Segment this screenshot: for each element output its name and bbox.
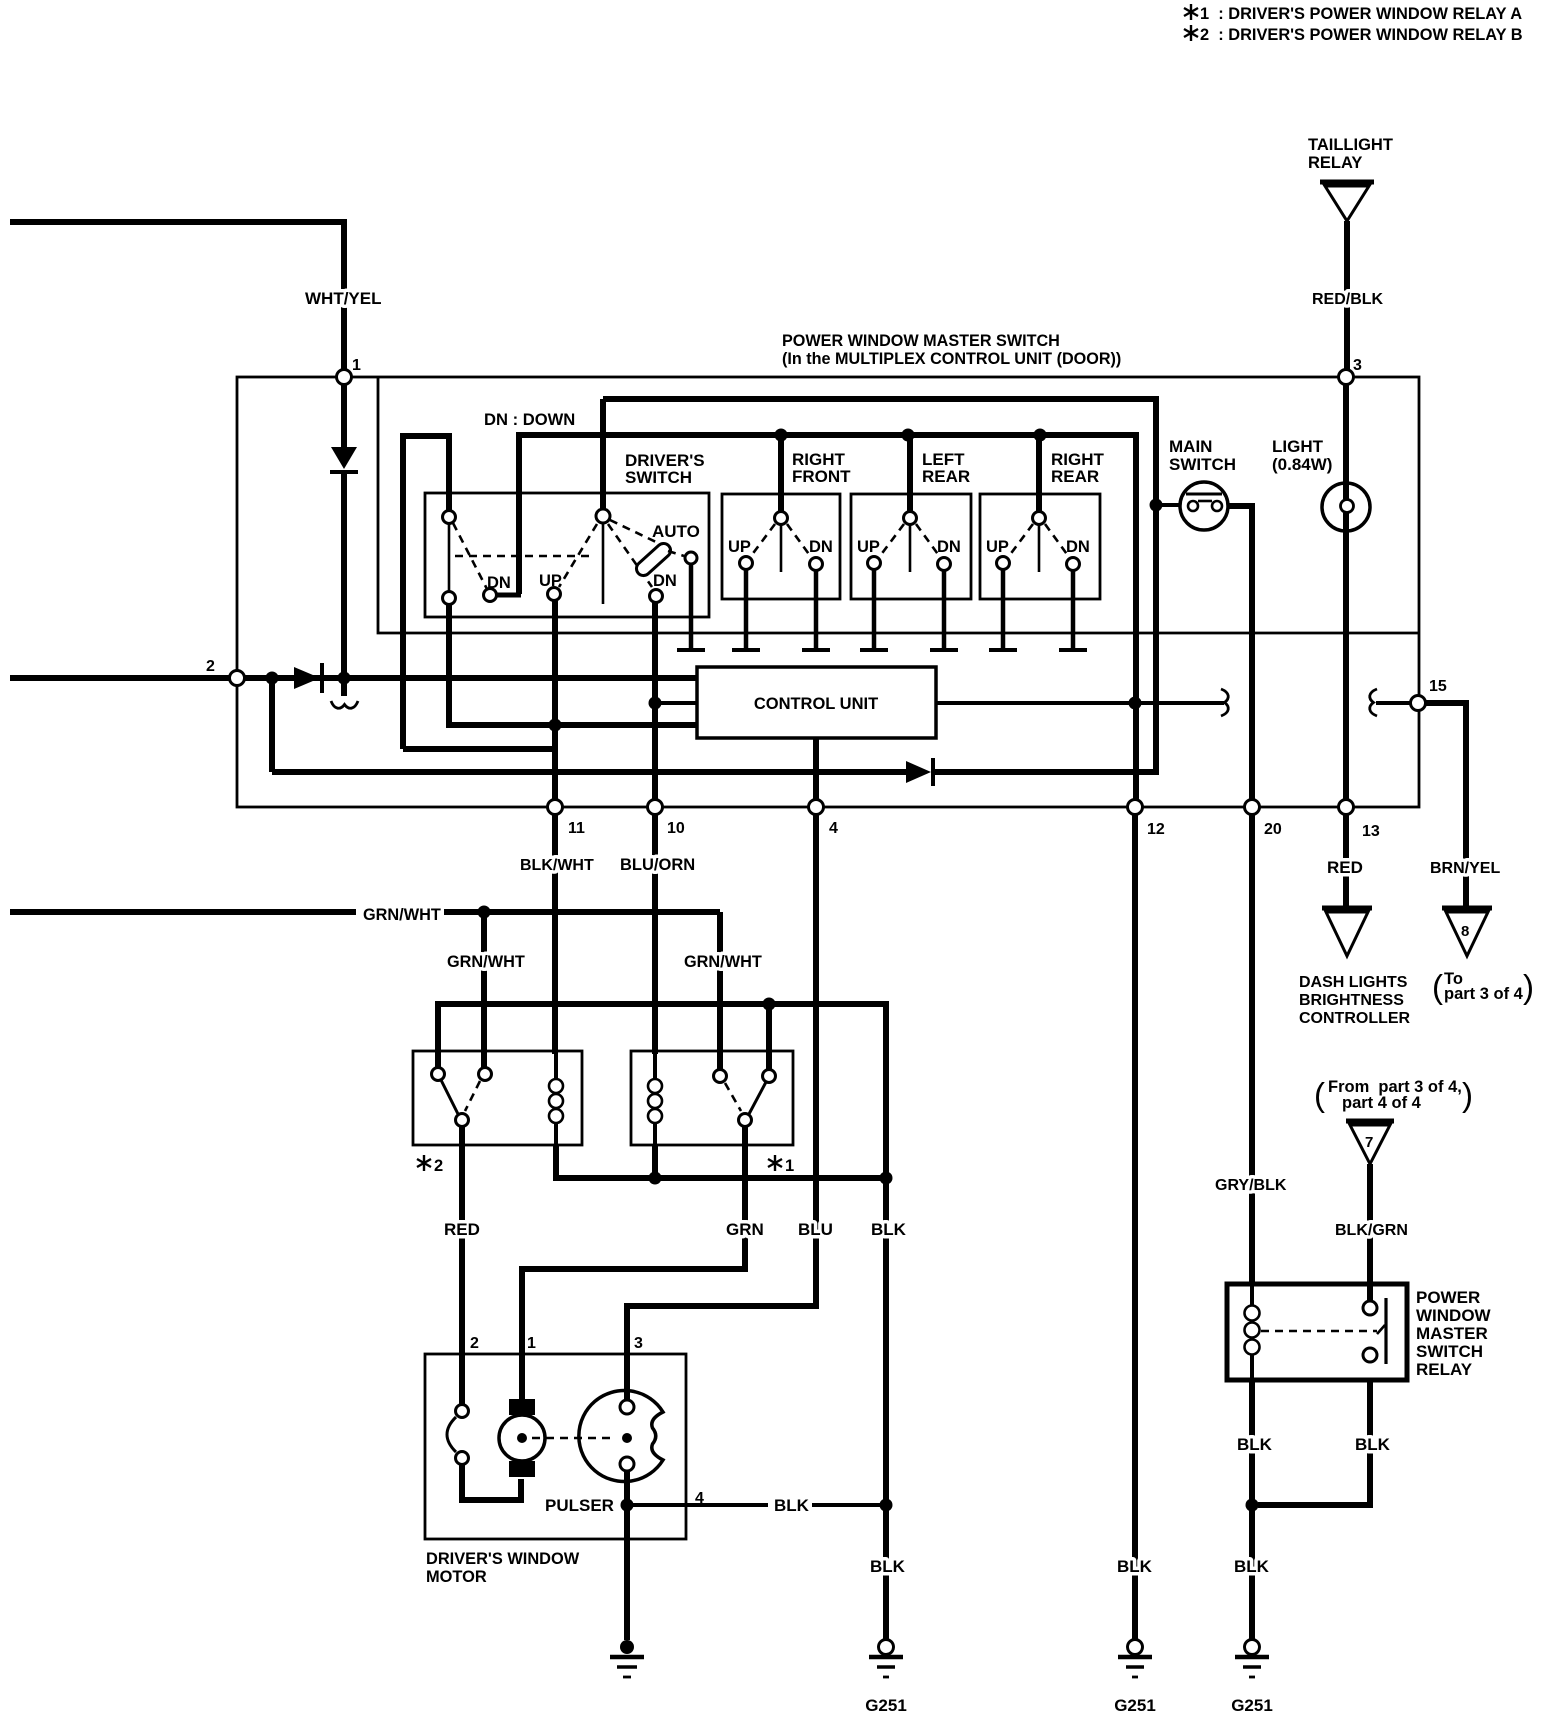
- svg-text:DN: DN: [653, 572, 677, 590]
- svg-text:MOTOR: MOTOR: [426, 1568, 487, 1586]
- wire GRN/WHT drop to relay B: [481, 912, 487, 1068]
- svg-text:1: 1: [352, 357, 361, 374]
- motor connector contacts: [447, 1405, 469, 1465]
- relay B box: [413, 1051, 582, 1145]
- wire WHT/YEL battery feed: [10, 222, 344, 369]
- label LIGHT 0.84W: [1272, 437, 1332, 474]
- label LEFT REAR: [922, 450, 970, 486]
- dashed motor shaft: [532, 1437, 616, 1440]
- svg-text:SWITCH: SWITCH: [1169, 455, 1236, 474]
- dashed pivot to DN2: [608, 524, 652, 587]
- svg-text:1: 1: [785, 1157, 794, 1175]
- relay A coil: [648, 1051, 662, 1145]
- wire pin 4 BLU to motor pin 3: [627, 815, 816, 1400]
- svg-text:part 3 of 4: part 3 of 4: [1444, 985, 1524, 1003]
- relay A box: [631, 1051, 793, 1145]
- junction node1-branch with node 2 line: [338, 672, 351, 685]
- node 4: [809, 800, 824, 815]
- relay A contacts: [714, 1070, 776, 1127]
- wire relay coils to ground bus: [556, 1145, 886, 1178]
- junction right front common: [775, 429, 788, 442]
- power window master switch relay box: [1227, 1284, 1407, 1380]
- svg-text:1: 1: [527, 1335, 536, 1352]
- connector triangle 7: [1346, 1121, 1394, 1164]
- svg-text:DASH LIGHTS: DASH LIGHTS: [1299, 974, 1408, 991]
- wire control unit output to node 4: [813, 738, 819, 800]
- svg-text:UP: UP: [728, 538, 751, 556]
- svg-text:FRONT: FRONT: [792, 467, 851, 486]
- junction control right with pin 12 riser: [1129, 697, 1142, 710]
- wire master relay coil to ground: [1249, 1380, 1255, 1639]
- wire GRN/WHT to relays: [444, 909, 720, 915]
- wire brush link: [462, 1465, 521, 1500]
- right rear switch box: [980, 494, 1100, 599]
- wire hat to pin 11 riser: [403, 746, 556, 752]
- wire DN2 down to node 10: [652, 602, 658, 800]
- contact right front UP: [740, 557, 753, 570]
- svg-text:UP: UP: [857, 538, 880, 556]
- wire pulser to BLK ground link: [633, 1503, 768, 1507]
- wire connector to node 15: [1376, 701, 1411, 705]
- right front switch box: [722, 494, 840, 599]
- pulser: [579, 1391, 663, 1482]
- svg-text:RELAY: RELAY: [1308, 154, 1362, 172]
- wire main switch to node 20: [1228, 506, 1252, 799]
- wire BLK ground drop: [883, 1178, 889, 1639]
- light bulb L1: [1322, 483, 1370, 531]
- wire pin 13 RED: [1343, 815, 1349, 908]
- ground pulser: [610, 1640, 644, 1677]
- svg-text:2: 2: [470, 1335, 479, 1352]
- label RIGHT REAR: [1051, 450, 1105, 486]
- svg-text:BLK: BLK: [871, 1220, 907, 1239]
- connector triangle 8: [1442, 908, 1492, 956]
- wire BLK link second segment: [812, 1503, 886, 1507]
- svg-text:REAR: REAR: [1051, 467, 1099, 486]
- svg-text:UP: UP: [986, 538, 1009, 556]
- label asterisk 1 relay A: [768, 1155, 794, 1175]
- connector half before node 15: [1370, 689, 1377, 716]
- contact DN2: [650, 590, 663, 603]
- wire right rear UP stub: [989, 570, 1017, 650]
- svg-text:RED: RED: [1327, 858, 1363, 877]
- svg-text:4: 4: [829, 820, 838, 837]
- contact left rear DN: [938, 558, 951, 571]
- label RIGHT FRONT: [792, 450, 851, 486]
- contact UP driver: [548, 588, 561, 601]
- ground G251 right: [1231, 1640, 1273, 1716]
- svg-text:BLK: BLK: [1355, 1435, 1391, 1454]
- taillight relay connector triangle: [1320, 182, 1374, 221]
- diode D1: [330, 385, 358, 472]
- wire RED relay B to motor: [459, 1127, 465, 1405]
- svg-text:DN: DN: [487, 574, 511, 592]
- dashed pivot to AUTO lever: [610, 520, 656, 542]
- wire left rear common riser: [907, 435, 913, 511]
- label POWER WINDOW MASTER SWITCH: [782, 332, 1121, 368]
- wire relay pickup bus to BLK ground drop: [438, 1004, 886, 1178]
- svg-text:DN: DN: [809, 538, 833, 556]
- junction BLK ground bus: [880, 1172, 893, 1185]
- svg-text:POWER: POWER: [1416, 1288, 1480, 1307]
- wire right rear DN stub: [1059, 571, 1087, 650]
- wire relay A right pin riser: [766, 1004, 772, 1070]
- contact left pair of driver's switch: [443, 511, 456, 605]
- svg-text:G251: G251: [865, 1696, 907, 1715]
- junction relay grounds: [1246, 1499, 1259, 1512]
- label asterisk 2 relay B: [417, 1155, 443, 1175]
- svg-text:SWITCH: SWITCH: [625, 468, 692, 487]
- svg-text:G251: G251: [1114, 1696, 1156, 1715]
- svg-text:MAIN: MAIN: [1169, 437, 1212, 456]
- svg-text:12: 12: [1147, 821, 1165, 838]
- wire right front common riser: [778, 435, 784, 511]
- contact right rear UP: [997, 557, 1010, 570]
- svg-text:DN: DN: [1066, 538, 1090, 556]
- svg-text:WINDOW: WINDOW: [1416, 1306, 1492, 1325]
- svg-text:MASTER: MASTER: [1416, 1324, 1488, 1343]
- svg-text:): ): [1523, 968, 1534, 1005]
- svg-text:20: 20: [1264, 821, 1282, 838]
- wire BLK/GRN to relay: [1367, 1164, 1373, 1302]
- svg-text:WHT/YEL: WHT/YEL: [305, 289, 382, 308]
- junction relay A coil ground: [649, 1172, 662, 1185]
- svg-text:PULSER: PULSER: [545, 1496, 614, 1515]
- svg-text:BLK: BLK: [1234, 1557, 1270, 1576]
- legend note asterisk 2: [1184, 25, 1523, 44]
- junction pulser ground branch: [621, 1499, 634, 1512]
- wire pin 10 BLU/ORN: [652, 815, 658, 1054]
- svg-text:10: 10: [667, 820, 685, 837]
- wire UP contact down to node 11: [552, 601, 558, 800]
- wire left rear UP stub: [860, 570, 888, 650]
- wire right front DN stub: [802, 571, 830, 650]
- pivot contact driver: [596, 509, 610, 604]
- junction GRN/WHT branch: [478, 906, 491, 919]
- dashed left rear linkage: [880, 524, 940, 557]
- junction right rear common: [1034, 429, 1047, 442]
- svg-text:13: 13: [1362, 823, 1380, 840]
- svg-text:(: (: [1314, 1076, 1325, 1113]
- dashed pivot to UP: [559, 524, 597, 587]
- master relay contacts: [1261, 1298, 1386, 1364]
- svg-text:UP: UP: [539, 572, 562, 590]
- wire main switch left: [1156, 503, 1180, 507]
- master relay coil: [1245, 1284, 1260, 1380]
- svg-text:(In the MULTIPLEX CONTROL UNIT: (In the MULTIPLEX CONTROL UNIT (DOOR)): [782, 350, 1121, 368]
- contact right rear DN: [1067, 558, 1080, 571]
- label DASH LIGHTS BRIGHTNESS CONTROLLER: [1299, 974, 1411, 1027]
- wire diode to inner power bus: [603, 399, 1156, 772]
- svg-text:SWITCH: SWITCH: [1416, 1342, 1483, 1361]
- junction BLK with pulser line: [880, 1499, 893, 1512]
- wire GRN/WHT drop to relay A: [717, 912, 723, 1070]
- legend note asterisk 1: [1184, 4, 1522, 23]
- wire DN1 bar: [496, 593, 521, 598]
- svg-text:AUTO: AUTO: [652, 522, 700, 541]
- junction DN2 line: [649, 697, 662, 710]
- left rear switch box: [851, 494, 971, 599]
- svg-text:(: (: [1432, 968, 1443, 1005]
- right rear common contact: [1033, 512, 1046, 573]
- wire battery feed to node 2: [10, 675, 229, 681]
- svg-text:11: 11: [568, 820, 585, 837]
- ground G251 left: [865, 1640, 907, 1716]
- svg-text:3: 3: [634, 1335, 643, 1352]
- dashed horizontal linkage: [455, 555, 594, 558]
- junction relay A right pin: [763, 998, 776, 1011]
- node 11: [548, 800, 563, 815]
- power window master switch outer box: [237, 377, 1419, 807]
- svg-text:BLK/WHT: BLK/WHT: [520, 857, 594, 874]
- dashed right rear linkage: [1009, 524, 1069, 557]
- wire light to node 13: [1343, 513, 1349, 799]
- wire GRN relay A to motor: [522, 1127, 745, 1400]
- wire master relay contact to ground join: [1258, 1380, 1370, 1505]
- svg-text:15: 15: [1429, 678, 1447, 695]
- wire switch common ground bus: [519, 435, 1136, 799]
- inner switch assembly boundary: [378, 378, 1418, 633]
- svg-text:BLK: BLK: [1237, 1435, 1273, 1454]
- dashed lever to right contact: [668, 551, 684, 556]
- label DRIVER'S SWITCH: [625, 451, 705, 487]
- svg-text:RED/BLK: RED/BLK: [1312, 291, 1384, 308]
- label From part 3 of 4 part 4 of 4: [1314, 1076, 1473, 1113]
- svg-text:POWER WINDOW MASTER SWITCH: POWER WINDOW MASTER SWITCH: [782, 332, 1060, 350]
- taillight relay label: [1308, 136, 1393, 172]
- connector half right of control line: [1221, 689, 1228, 716]
- connector triangle dash lights: [1322, 908, 1372, 956]
- svg-text:2 : DRIVER'S POWER WINDOW REL: 2 : DRIVER'S POWER WINDOW RELAY B: [1200, 26, 1523, 44]
- svg-text:LIGHT: LIGHT: [1272, 437, 1324, 456]
- svg-text:DRIVER'S WINDOW: DRIVER'S WINDOW: [426, 1550, 580, 1568]
- svg-text:3: 3: [1353, 357, 1362, 374]
- node 1: [337, 370, 352, 385]
- svg-text:RED: RED: [444, 1220, 480, 1239]
- node 10: [648, 800, 663, 815]
- wire node 15 to BRN/YEL drop: [1426, 703, 1466, 908]
- dashed linkage left pair: [453, 523, 487, 589]
- junction on node 2 line: [266, 672, 279, 685]
- contact right front DN: [810, 558, 823, 571]
- diode D3: [906, 758, 933, 786]
- svg-text:CONTROLLER: CONTROLLER: [1299, 1010, 1411, 1027]
- svg-text:BLK: BLK: [1117, 1557, 1153, 1576]
- label DRIVER'S WINDOW MOTOR: [426, 1550, 580, 1586]
- wire control unit right output: [936, 701, 1224, 705]
- junction pin11 riser with control line: [549, 719, 562, 732]
- node 12: [1128, 800, 1143, 815]
- contact left rear UP: [868, 557, 881, 570]
- svg-text:BLU: BLU: [798, 1220, 833, 1239]
- node 20: [1245, 800, 1260, 815]
- svg-text:DN : DOWN: DN : DOWN: [484, 410, 575, 429]
- wire lock switch hat link: [400, 436, 452, 749]
- svg-text:GRN/WHT: GRN/WHT: [684, 953, 762, 971]
- svg-text:7: 7: [1365, 1134, 1373, 1151]
- node 2: [230, 671, 245, 686]
- svg-text:GRN/WHT: GRN/WHT: [447, 953, 525, 971]
- svg-text:BLK: BLK: [870, 1557, 906, 1576]
- right front common contact: [775, 512, 788, 573]
- svg-text:GRN: GRN: [726, 1220, 764, 1239]
- svg-text:RELAY: RELAY: [1416, 1360, 1473, 1379]
- svg-text:BRIGHTNESS: BRIGHTNESS: [1299, 992, 1404, 1009]
- wire pin 11 BLK/WHT: [552, 815, 558, 1054]
- svg-text:): ): [1462, 1076, 1473, 1113]
- wire power bus to driver pivot: [600, 399, 606, 509]
- relay B contacts: [432, 1068, 492, 1127]
- svg-text:1 : DRIVER'S POWER WINDOW REL: 1 : DRIVER'S POWER WINDOW RELAY A: [1200, 5, 1522, 23]
- wire branch from node 2 line down to diode loop: [269, 678, 275, 772]
- left rear common contact: [904, 512, 917, 573]
- junction left rear common: [902, 429, 915, 442]
- svg-text:BLK: BLK: [774, 1496, 810, 1515]
- wire lower-left contact to control unit: [449, 605, 697, 725]
- diode D2: [294, 663, 322, 693]
- wire DN2 contact line to control unit: [655, 701, 697, 705]
- control unit U1: [697, 667, 936, 738]
- svg-text:REAR: REAR: [922, 467, 970, 486]
- wire right contact stub: [677, 564, 705, 650]
- contact DN1: [484, 589, 497, 602]
- label MAIN SWITCH: [1169, 437, 1236, 474]
- wire right rear common riser: [1036, 435, 1042, 511]
- svg-text:8: 8: [1461, 923, 1469, 940]
- driver's window motor box: [425, 1354, 686, 1539]
- node 15: [1411, 696, 1426, 711]
- wire node 3 down to light: [1343, 385, 1349, 499]
- wire pulser pin 4 down: [624, 1471, 630, 1640]
- node 13: [1339, 800, 1354, 815]
- main switch S1: [1180, 482, 1228, 530]
- label To part 3 of 4: [1432, 968, 1534, 1005]
- node 3: [1339, 370, 1354, 385]
- wire GRN/WHT feed left: [10, 909, 356, 915]
- svg-text:2: 2: [434, 1157, 443, 1175]
- label POWER WINDOW MASTER SWITCH RELAY: [1416, 1288, 1492, 1379]
- svg-text:CONTROL UNIT: CONTROL UNIT: [754, 695, 878, 713]
- svg-text:(0.84W): (0.84W): [1272, 455, 1332, 474]
- wire RED/BLK taillight relay to node 3: [1344, 221, 1350, 370]
- relay B coil: [549, 1051, 563, 1145]
- wire node 1 branch down to junction: [341, 472, 347, 696]
- svg-text:GRY/BLK: GRY/BLK: [1215, 1177, 1287, 1194]
- wire node 2 to control unit: [245, 675, 697, 681]
- svg-text:TAILLIGHT: TAILLIGHT: [1308, 136, 1393, 154]
- svg-text:BLU/ORN: BLU/ORN: [620, 856, 695, 874]
- motor M1: [499, 1399, 545, 1477]
- wire pin 20 GRY/BLK to relay: [1249, 815, 1255, 1286]
- wire pin 12 to ground: [1132, 815, 1138, 1639]
- svg-text:BLK/GRN: BLK/GRN: [1335, 1222, 1408, 1239]
- svg-text:BRN/YEL: BRN/YEL: [1430, 860, 1500, 877]
- dashed right front linkage: [751, 524, 811, 557]
- driver's switch box: [425, 493, 709, 617]
- svg-text:DN: DN: [937, 538, 961, 556]
- svg-text:G251: G251: [1231, 1696, 1273, 1715]
- wire diode loop lower: [272, 769, 906, 775]
- wire left rear DN stub: [930, 571, 958, 650]
- contact right of driver's switch: [685, 552, 697, 564]
- svg-text:part 4 of 4: part 4 of 4: [1342, 1094, 1422, 1112]
- wire right front UP stub: [732, 570, 760, 650]
- svg-text:GRN/WHT: GRN/WHT: [363, 906, 441, 924]
- junction main switch feed: [1150, 499, 1163, 512]
- svg-text:2: 2: [206, 658, 215, 675]
- AUTO lever: [634, 541, 674, 579]
- ground G251 middle: [1114, 1640, 1156, 1716]
- connector half below junction: [331, 701, 358, 708]
